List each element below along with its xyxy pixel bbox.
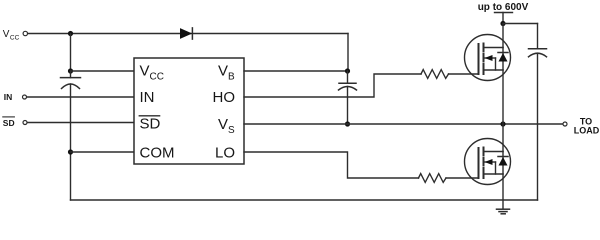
node Vcc-cap junction (68, 31, 73, 36)
node VS drain junction (500, 121, 505, 126)
capacitor C2 (339, 71, 357, 90)
svg-text:LOAD: LOAD (574, 125, 600, 135)
terminal IN (4, 92, 27, 102)
wire C2 bottom lead (347, 87, 349, 125)
wire R1 to gate (449, 73, 479, 75)
svg-text:IN: IN (140, 89, 155, 106)
channel bar (483, 44, 485, 52)
IC U1 (134, 58, 244, 164)
svg-text:SD: SD (3, 118, 15, 128)
body diode (502, 48, 504, 71)
wire Q1 source vertical (502, 70, 504, 124)
wire C3 to bottom rail (537, 53, 539, 200)
capacitor C1 (61, 71, 81, 89)
body lead with arrow (484, 161, 496, 163)
svg-text:B: B (228, 72, 235, 83)
node 600V junction (500, 21, 505, 26)
transistor Q1 (465, 35, 511, 81)
wire 600V drop (502, 13, 504, 24)
wire HO to gate (244, 74, 421, 97)
svg-text:CC: CC (10, 34, 20, 41)
svg-text:V: V (140, 63, 150, 80)
svg-text:IN: IN (4, 92, 13, 102)
wire left vertical lower (70, 84, 72, 200)
body diode (502, 152, 504, 175)
terminal SD (3, 117, 27, 128)
wire VB pin (244, 70, 348, 72)
svg-text:up to 600V: up to 600V (478, 2, 529, 13)
svg-text:S: S (228, 125, 235, 136)
gate bar (478, 44, 480, 74)
wire diode drop (347, 34, 349, 72)
svg-text:HO: HO (213, 89, 236, 106)
capacitor C3 (529, 24, 547, 57)
wire VCC pin (71, 70, 135, 72)
wire Q2 source vertical (502, 174, 504, 209)
resistor R2 (419, 174, 447, 183)
wire COM pin (71, 151, 135, 153)
source lead (484, 173, 504, 175)
wire bottom rail (71, 199, 538, 201)
svg-text:V: V (218, 116, 228, 133)
node VB junction (345, 68, 350, 73)
supply terminal up to 600V (478, 2, 529, 13)
channel bar (483, 148, 485, 156)
node VCC pin junction (68, 68, 73, 73)
transistor Q2 (465, 139, 511, 185)
wire VS pin (244, 123, 348, 125)
wire Q1 drain vertical (502, 24, 504, 48)
wire IN pin (27, 96, 134, 98)
drain lead (484, 151, 504, 153)
diode D1 (180, 28, 192, 39)
gate bar (478, 148, 480, 178)
body lead with arrow (484, 57, 496, 59)
wire Q2 drain vertical (502, 124, 504, 152)
svg-text:SD: SD (140, 116, 161, 133)
svg-text:V: V (218, 63, 228, 80)
terminal TO LOAD (563, 117, 600, 136)
svg-text:LO: LO (215, 145, 235, 162)
ground (497, 209, 510, 214)
svg-text:CC: CC (150, 72, 164, 83)
wire top right to C3 (503, 23, 538, 25)
wire R2 to gate (446, 177, 479, 179)
source lead (484, 69, 504, 71)
node VS bootstrap junction (345, 121, 350, 126)
terminal VCC (3, 29, 28, 41)
wire VS to output (348, 123, 564, 125)
wire left vertical upper (70, 34, 72, 72)
wire SD pin (27, 122, 134, 124)
resistor R1 (421, 70, 449, 79)
node COM junction (68, 149, 73, 154)
drain lead (484, 47, 504, 49)
svg-text:V: V (3, 29, 10, 40)
wire LO to gate (244, 152, 419, 178)
svg-text:COM: COM (140, 145, 175, 162)
wire Vcc top rail (28, 33, 348, 35)
